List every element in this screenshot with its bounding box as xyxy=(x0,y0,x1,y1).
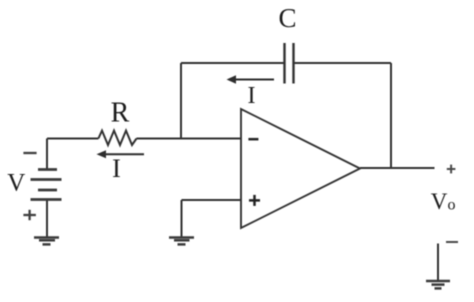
svg-text:V: V xyxy=(7,170,25,197)
svg-text:R: R xyxy=(111,98,130,129)
svg-text:I: I xyxy=(248,83,256,109)
svg-text:C: C xyxy=(278,3,296,33)
svg-text:V: V xyxy=(431,189,448,214)
svg-text:o: o xyxy=(448,197,456,214)
svg-text:I: I xyxy=(112,154,121,183)
